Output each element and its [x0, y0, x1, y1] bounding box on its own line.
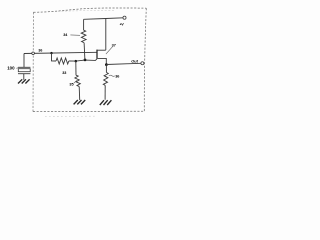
wire: branch to transistor source [69, 59, 97, 61]
output terminal circle [141, 62, 144, 65]
wire: R36 top lead [105, 65, 107, 73]
wire: branch drop [52, 53, 57, 61]
transistor 37 drain lead [97, 49, 105, 51]
junction dot (R34 / branch) [84, 59, 87, 62]
wire: output wire [106, 63, 140, 64]
wire: R35 top lead [75, 61, 77, 75]
leader for 100 [16, 67, 18, 70]
svg-text:36: 36 [38, 49, 42, 53]
dashed enclosure border right [144, 8, 146, 111]
resistor 33 [56, 58, 69, 64]
leader for 36 [109, 75, 115, 76]
junction dot (source / out / R36) [105, 63, 108, 66]
transistor 37 bar [96, 50, 98, 59]
crystal 100 top plate [18, 66, 30, 68]
wire: crystal bottom lead [23, 74, 25, 80]
leader for 37 [106, 47, 113, 54]
resistor 34 [81, 30, 86, 43]
wire: top supply wire [84, 18, 123, 20]
ground (below resistor 36) [100, 100, 112, 105]
wire: drain vertical [105, 19, 107, 51]
svg-text:Out: Out [131, 59, 138, 64]
resistor 36 [103, 72, 108, 85]
junction dot (main wire / branch) [50, 52, 52, 54]
svg-text:100: 100 [7, 66, 15, 71]
ground (below crystal) [18, 79, 30, 83]
wire: R36 bottom lead [104, 85, 106, 99]
transistor 37 source lead [97, 58, 106, 64]
wire: R34 top lead [83, 19, 85, 30]
resistor 35 [75, 75, 80, 86]
supply terminal circle [123, 16, 126, 19]
crystal 100 bottom plate [18, 73, 30, 75]
scan artifact: ghost of top border [58, 11, 115, 12]
leader for 34 [70, 34, 80, 36]
dashed enclosure border bottom [33, 110, 144, 112]
svg-text:33: 33 [62, 71, 66, 75]
svg-text:35: 35 [69, 82, 73, 86]
ground (below resistor 35) [74, 100, 86, 104]
dashed enclosure border top [33, 8, 146, 12]
wire: R34 bottom lead crossing gate wire [83, 43, 86, 60]
dashed enclosure border left [32, 12, 34, 111]
crystal 100 body [18, 69, 30, 72]
svg-text:36: 36 [115, 74, 119, 78]
wire: main gate wire [24, 52, 97, 53]
junction dot (R33 / R35) [75, 60, 78, 63]
wire: R35 bottom lead [78, 87, 81, 101]
leader for 35 [74, 80, 77, 83]
node terminal 36 (open circle on boundary) [32, 52, 35, 55]
scan artifact: faint bleed-through below bottom border [45, 115, 95, 117]
wire: crystal drop from node to crystal top [23, 54, 25, 68]
